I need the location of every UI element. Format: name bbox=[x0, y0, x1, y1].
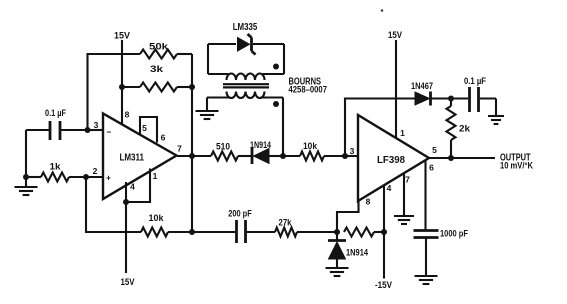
wire: up to LF398 pin 8 bbox=[337, 201, 359, 232]
resistor (pull-down to -15V, unlabeled) bbox=[344, 228, 374, 237]
svg-text:4258–0007: 4258–0007 bbox=[289, 85, 328, 95]
node: pin1/4 strap to supply bbox=[123, 199, 129, 205]
node: diode / transformer / 10k junction bbox=[280, 153, 286, 159]
ground (clamp diode) bbox=[326, 268, 349, 276]
node: output / 2k junction bbox=[448, 155, 454, 161]
resistor 10k (to LF398 input) bbox=[283, 155, 345, 157]
ground (0.1uF top right) bbox=[488, 116, 504, 124]
wire: 15V to LF398 pin 1 bbox=[395, 40, 397, 138]
bottom RC line: 10k timing resistor bbox=[141, 228, 168, 237]
phase dot (secondary) bbox=[273, 101, 279, 107]
svg-text:10 mV/°K: 10 mV/°K bbox=[500, 161, 533, 171]
svg-text:5: 5 bbox=[142, 123, 147, 133]
svg-text:3k: 3k bbox=[150, 64, 164, 74]
ground (left rail) bbox=[15, 187, 38, 195]
node: 1N467 / 2k / 0.1uF junction bbox=[448, 96, 454, 102]
svg-text:0.1 µF: 0.1 µF bbox=[45, 108, 66, 118]
svg-text:3: 3 bbox=[94, 120, 99, 130]
capacitor 1000 pF (hold) bbox=[414, 231, 439, 238]
svg-text:10k: 10k bbox=[149, 213, 165, 223]
svg-text:LF398: LF398 bbox=[377, 155, 406, 166]
wire: into LF398 pin 3 bbox=[345, 155, 358, 157]
resistor 3k (output pull-up) bbox=[140, 83, 177, 92]
phase dot (primary) bbox=[273, 64, 279, 70]
svg-text:510: 510 bbox=[216, 142, 230, 152]
svg-text:8: 8 bbox=[125, 110, 130, 120]
svg-text:15V: 15V bbox=[121, 277, 135, 287]
svg-text:15V: 15V bbox=[114, 31, 130, 41]
resistor 1k bbox=[26, 176, 86, 178]
node: 3k / output vertical junction bbox=[189, 84, 195, 90]
wire: feedback line top (output to pin 3) bbox=[88, 54, 193, 130]
svg-text:10k: 10k bbox=[303, 141, 318, 151]
svg-text:-15V: -15V bbox=[375, 280, 392, 290]
speck (scan artifact) bbox=[381, 9, 384, 12]
svg-text:7: 7 bbox=[177, 144, 182, 154]
node: 15V / 3k / pin8 junction bbox=[119, 84, 125, 90]
svg-text:1N467: 1N467 bbox=[411, 81, 433, 91]
transformer T1 secondary winding bbox=[207, 96, 283, 98]
wire: +15V rail down to LM311 pin 8 bbox=[121, 40, 123, 125]
svg-text:27k: 27k bbox=[279, 218, 293, 228]
pins 5-6 balance strap bbox=[140, 117, 157, 143]
wire: feedback from pin3 node up and right to 1N467 bbox=[345, 99, 415, 157]
node: 27k / clamp diode / pin8 junction bbox=[334, 229, 340, 235]
wire: LF398 pin 4 to -15V bbox=[383, 185, 385, 279]
wire: left rail bbox=[25, 130, 27, 187]
capacitor 0.1uF (input) bbox=[26, 129, 88, 131]
svg-text:+: + bbox=[106, 173, 111, 183]
wire: pin2 node down to bottom RC line bbox=[86, 177, 141, 232]
resistor 2k (vertical) bbox=[450, 99, 452, 159]
wire: secondary right down to signal node bbox=[282, 98, 284, 157]
svg-text:1N914: 1N914 bbox=[346, 248, 368, 258]
svg-text:3: 3 bbox=[350, 146, 355, 156]
svg-text:2: 2 bbox=[93, 166, 98, 176]
diode D1 1N914 (signal line, cathode left) bbox=[251, 148, 254, 164]
svg-text:4: 4 bbox=[130, 182, 135, 192]
node: pin2 / 1k / bottom wire junction bbox=[83, 174, 89, 180]
node: left rail / 1k junction bbox=[23, 174, 29, 180]
wire: output right vertical (50k/3k/pin7/bottom RC) bbox=[191, 54, 193, 232]
ground (hold cap) bbox=[415, 276, 438, 284]
resistor 510 bbox=[211, 152, 238, 161]
svg-text:2k: 2k bbox=[459, 124, 471, 134]
svg-text:1: 1 bbox=[153, 171, 158, 181]
wire: LM311 output line bbox=[177, 155, 251, 157]
svg-text:6: 6 bbox=[161, 133, 166, 143]
op-amp U1 LM311 comparator bbox=[103, 114, 177, 200]
capacitor 0.1uF (top right) bbox=[451, 99, 496, 117]
wire: pin 2 input bbox=[86, 176, 103, 178]
svg-text:50k: 50k bbox=[149, 42, 169, 52]
svg-text:−: − bbox=[107, 127, 112, 137]
sensor LM335 (zener symbol) bbox=[238, 38, 250, 52]
wire: LM311 negative supply bbox=[125, 202, 127, 273]
svg-text:6: 6 bbox=[429, 163, 434, 173]
svg-text:8: 8 bbox=[366, 197, 371, 207]
node: pin3 / cap / 50k junction bbox=[85, 127, 91, 133]
resistor 27k bbox=[275, 228, 297, 237]
node: LF398 pin3 / feedback junction bbox=[342, 153, 348, 159]
svg-text:0.1 µF: 0.1 µF bbox=[464, 76, 486, 86]
node: -15V line / resistor junction bbox=[381, 229, 387, 235]
svg-text:1: 1 bbox=[400, 128, 405, 138]
wire: secondary left to ground bbox=[206, 98, 208, 112]
svg-text:200 pF: 200 pF bbox=[228, 209, 252, 219]
wire: pin 3 input bbox=[88, 129, 104, 131]
transformer T1 primary winding bbox=[208, 73, 284, 75]
ground (transformer secondary) bbox=[196, 111, 219, 119]
svg-text:LM311: LM311 bbox=[119, 152, 144, 163]
svg-text:LM335: LM335 bbox=[233, 22, 258, 33]
svg-text:7: 7 bbox=[405, 175, 410, 185]
wire: 3k row bbox=[122, 86, 192, 88]
svg-text:1k: 1k bbox=[50, 162, 62, 172]
svg-text:1000 pF: 1000 pF bbox=[440, 229, 468, 239]
diode D2 1N914 (clamp, cathode up) bbox=[336, 232, 338, 268]
transformer T1 core bbox=[223, 84, 269, 87]
capacitor 200 pF bbox=[192, 231, 275, 233]
svg-text:4: 4 bbox=[387, 183, 392, 193]
diode D3 1N467 (cathode right) bbox=[415, 92, 430, 105]
svg-text:1N914: 1N914 bbox=[250, 140, 271, 150]
resistor 50k (hysteresis feedback) bbox=[140, 50, 177, 59]
node: output / vertical junction bbox=[189, 153, 195, 159]
transformer T1: top loop wire with LM335 bbox=[208, 44, 284, 74]
pins 1-4 strap to -15V bbox=[126, 169, 150, 203]
op-amp U2 LF398 sample-and-hold bbox=[358, 115, 429, 201]
wire: output line bbox=[429, 157, 495, 159]
node: bottom line / output vertical junction bbox=[189, 229, 195, 235]
svg-text:5: 5 bbox=[432, 145, 437, 155]
svg-text:15V: 15V bbox=[388, 30, 402, 40]
